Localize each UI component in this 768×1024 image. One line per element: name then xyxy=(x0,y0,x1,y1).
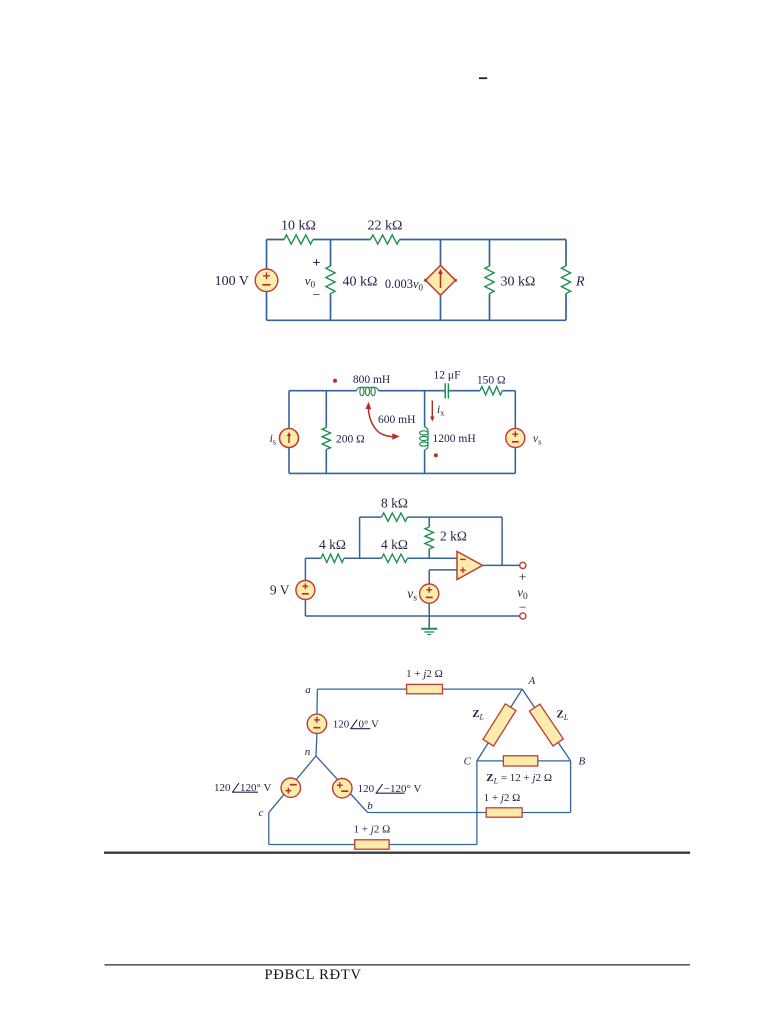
fig1 resistor 40 kOhm xyxy=(326,266,335,294)
fig4 impedance 1+j2 line b xyxy=(486,808,522,817)
svg-text:−: − xyxy=(313,288,321,303)
fig4 impedance ZL left xyxy=(483,704,516,746)
fig3 top wire xyxy=(360,516,503,518)
fig3 wire 2k xyxy=(428,517,430,558)
fig2 source vs xyxy=(506,429,525,448)
svg-text:−: − xyxy=(519,600,527,615)
fig3 terminal bottom xyxy=(520,613,526,619)
fig4 delta side AB xyxy=(522,689,570,761)
fig3 label 4k left xyxy=(319,537,346,552)
fig3 label 2k xyxy=(440,529,467,544)
fig4 wire B vertical xyxy=(570,761,572,813)
fig3 source vs xyxy=(420,584,439,603)
fig3 label 8k xyxy=(381,496,408,511)
svg-text:120: 120 xyxy=(333,719,350,731)
fig2 top wire xyxy=(289,390,515,392)
svg-text:12 μF: 12 μF xyxy=(434,369,461,381)
fig3 left wire xyxy=(304,558,306,616)
fig3 resistor 2k xyxy=(425,527,433,549)
fig4 impedance ZL right xyxy=(529,704,563,746)
fig1 resistor 22 kOhm xyxy=(371,235,400,244)
svg-text:4 kΩ: 4 kΩ xyxy=(319,537,346,552)
fig4 label 120ang0 xyxy=(333,719,379,731)
svg-text:100 V: 100 V xyxy=(215,274,249,289)
fig2 capacitor 12 uF xyxy=(445,383,448,398)
svg-text:1 + j2 Ω: 1 + j2 Ω xyxy=(354,824,391,836)
fig4 delta side AC xyxy=(477,689,522,761)
svg-text:−120° V: −120° V xyxy=(384,783,422,795)
fig4 wire b line xyxy=(368,812,571,814)
fig3 label 4k right xyxy=(381,537,408,552)
fig1 label minus v0 xyxy=(313,288,321,303)
svg-text:30 kΩ: 30 kΩ xyxy=(501,275,536,290)
fig4 label A xyxy=(528,675,536,687)
svg-text:PĐBCL RĐTV: PĐBCL RĐTV xyxy=(265,967,362,983)
fig1 label 100 V xyxy=(215,274,249,289)
fig4 label a xyxy=(305,684,311,696)
fig2 right wire xyxy=(514,391,516,474)
fig1 dependent source 0.003v0 xyxy=(424,265,457,295)
fig3 vertical link xyxy=(359,517,361,558)
fig1 wire node v0 branch xyxy=(330,240,332,321)
fig2 wire 200 branch xyxy=(325,391,327,474)
fig1 resistor R xyxy=(561,266,570,294)
fig2 dot 800mH xyxy=(333,379,337,383)
svg-text:0° V: 0° V xyxy=(359,719,379,731)
fig2 inductor 1200 mH xyxy=(420,427,428,450)
fig4 source 120-0 xyxy=(307,714,326,733)
fig3 opamp U1 xyxy=(457,551,483,579)
fig4 label b xyxy=(367,800,373,812)
fig1 top wire xyxy=(267,239,567,241)
svg-text:10 kΩ: 10 kΩ xyxy=(281,219,316,234)
svg-text:R: R xyxy=(575,275,585,290)
fig3 resistor 4k right xyxy=(382,554,408,562)
fig3 plus input wire xyxy=(429,570,457,584)
fig4 impedance 1+j2 line a xyxy=(407,684,443,693)
svg-text:2 kΩ: 2 kΩ xyxy=(440,529,467,544)
fig2 label is xyxy=(270,433,276,447)
svg-text:4 kΩ: 4 kΩ xyxy=(381,537,408,552)
svg-text:b: b xyxy=(367,800,373,812)
svg-text:a: a xyxy=(305,684,311,696)
svg-text:1 + j2 Ω: 1 + j2 Ω xyxy=(484,792,521,804)
fig4 wire a to n xyxy=(316,689,317,756)
fig2 left wire xyxy=(288,391,290,474)
svg-text:+: + xyxy=(519,570,527,585)
fig2 inductor 800 mH xyxy=(357,387,379,395)
fig1 bottom wire xyxy=(267,319,567,321)
fig2 dot 1200mH xyxy=(434,453,438,457)
fig1 label 0.003v0 xyxy=(385,277,424,293)
fig1 resistor 10 kOhm xyxy=(284,235,313,244)
svg-text:c: c xyxy=(259,807,264,819)
fig4 label 1+j2 line a xyxy=(406,668,443,680)
fig4 wire bottom line c xyxy=(269,844,477,846)
fig3 label vo out xyxy=(517,585,528,603)
svg-text:C: C xyxy=(464,756,472,768)
fig3 resistor 8k xyxy=(382,513,408,521)
fig4 label c xyxy=(259,807,264,819)
fig4 label C xyxy=(464,756,472,768)
fig1 label v0 xyxy=(305,273,316,291)
fig4 source 120-120 xyxy=(281,778,300,797)
svg-text:1200 mH: 1200 mH xyxy=(433,433,476,445)
fig4 impedance 1+j2 line c xyxy=(355,840,389,849)
fig4 source 120-m120 xyxy=(333,779,352,798)
fig2 resistor 200 Ohm xyxy=(322,428,330,450)
fig2 label 12 uF xyxy=(434,369,461,381)
fig4 label 120ang120 xyxy=(214,782,271,794)
fig4 wire n to b xyxy=(316,756,368,813)
header dash xyxy=(479,77,487,79)
fig1 wire 30k branch xyxy=(489,240,491,321)
fig1 label plus v0 xyxy=(313,256,321,271)
fig3 bottom wire xyxy=(305,615,519,617)
fig3 terminal top xyxy=(520,562,526,568)
fig2 coupling arrow 600 mH xyxy=(366,402,400,440)
svg-text:120: 120 xyxy=(214,782,231,794)
fig2 bottom wire xyxy=(289,472,515,474)
fig3 ground xyxy=(421,629,437,635)
svg-text:9 V: 9 V xyxy=(270,583,290,598)
fig2 label 800 mH xyxy=(353,374,390,386)
fig4 separator thick line xyxy=(104,852,690,854)
fig2 label 200 Ohm xyxy=(336,433,365,445)
fig1 wire dep source branch xyxy=(440,240,442,321)
fig3 label 9V xyxy=(270,583,290,598)
fig1 wire R branch xyxy=(565,240,567,321)
fig4 wire n to c xyxy=(269,756,316,813)
svg-text:800 mH: 800 mH xyxy=(353,374,390,386)
fig2 label ix xyxy=(437,404,445,418)
fig1 label 22 kOhm xyxy=(368,219,403,234)
svg-text:120: 120 xyxy=(358,783,375,795)
footer rule xyxy=(105,964,691,966)
fig4 label ZL value xyxy=(486,772,552,786)
fig3 label vs xyxy=(407,586,417,604)
footer text PDBCL RDTV xyxy=(265,967,362,983)
fig4 label 1+j2 line b xyxy=(484,792,521,804)
svg-text:+: + xyxy=(313,256,321,271)
fig4 label B xyxy=(579,756,586,768)
fig4 label 120angm120 xyxy=(358,783,422,795)
fig3 output wire xyxy=(483,517,520,565)
fig4 wire C vertical xyxy=(476,761,478,845)
fig2 label 1200 mH xyxy=(433,433,476,445)
fig4 label ZL left xyxy=(472,708,484,722)
svg-text:600 mH: 600 mH xyxy=(378,414,415,426)
fig4 delta side CB xyxy=(477,760,571,762)
svg-text:0.003v0: 0.003v0 xyxy=(385,277,424,293)
fig2 resistor 150 Ohm xyxy=(480,387,502,395)
svg-text:150 Ω: 150 Ω xyxy=(477,374,506,386)
fig1 source 100V xyxy=(255,269,278,292)
svg-text:8 kΩ: 8 kΩ xyxy=(381,496,408,511)
fig4 label ZL right xyxy=(557,709,569,723)
fig2 wire 1200 branch xyxy=(424,391,426,474)
fig3 vs to ground wire xyxy=(428,603,430,628)
fig4 impedance ZL bottom xyxy=(503,756,537,766)
fig2 label 150 Ohm xyxy=(477,374,506,386)
fig4 label n xyxy=(305,746,311,758)
fig3 main wire xyxy=(305,557,457,559)
svg-text:B: B xyxy=(579,756,586,768)
svg-text:n: n xyxy=(305,746,311,758)
fig3 label plus out xyxy=(519,570,527,585)
svg-text:1 + j2 Ω: 1 + j2 Ω xyxy=(406,668,443,680)
fig2 ix arrow xyxy=(430,401,434,422)
svg-text:40 kΩ: 40 kΩ xyxy=(343,275,378,290)
fig1 label 40 kOhm xyxy=(343,275,378,290)
fig4 label 1+j2 line c xyxy=(354,824,391,836)
fig1 left wire xyxy=(266,240,268,321)
fig4 wire c down xyxy=(268,813,270,845)
fig2 current source is xyxy=(280,429,299,448)
svg-text:120° V: 120° V xyxy=(240,782,271,794)
fig1 resistor 30 kOhm xyxy=(485,266,494,294)
fig4 line a wire xyxy=(317,688,522,690)
svg-text:A: A xyxy=(528,675,536,687)
fig3 label minus out xyxy=(519,600,527,615)
fig2 label vs xyxy=(533,433,541,447)
svg-text:200 Ω: 200 Ω xyxy=(336,433,365,445)
fig2 label 600 mH xyxy=(378,414,415,426)
fig3 resistor 4k left xyxy=(321,554,344,562)
fig1 label 30 kOhm xyxy=(501,275,536,290)
svg-text:22 kΩ: 22 kΩ xyxy=(368,219,403,234)
fig3 source 9V xyxy=(296,581,315,600)
fig1 label 10 kOhm xyxy=(281,219,316,234)
fig1 label R xyxy=(575,275,585,290)
